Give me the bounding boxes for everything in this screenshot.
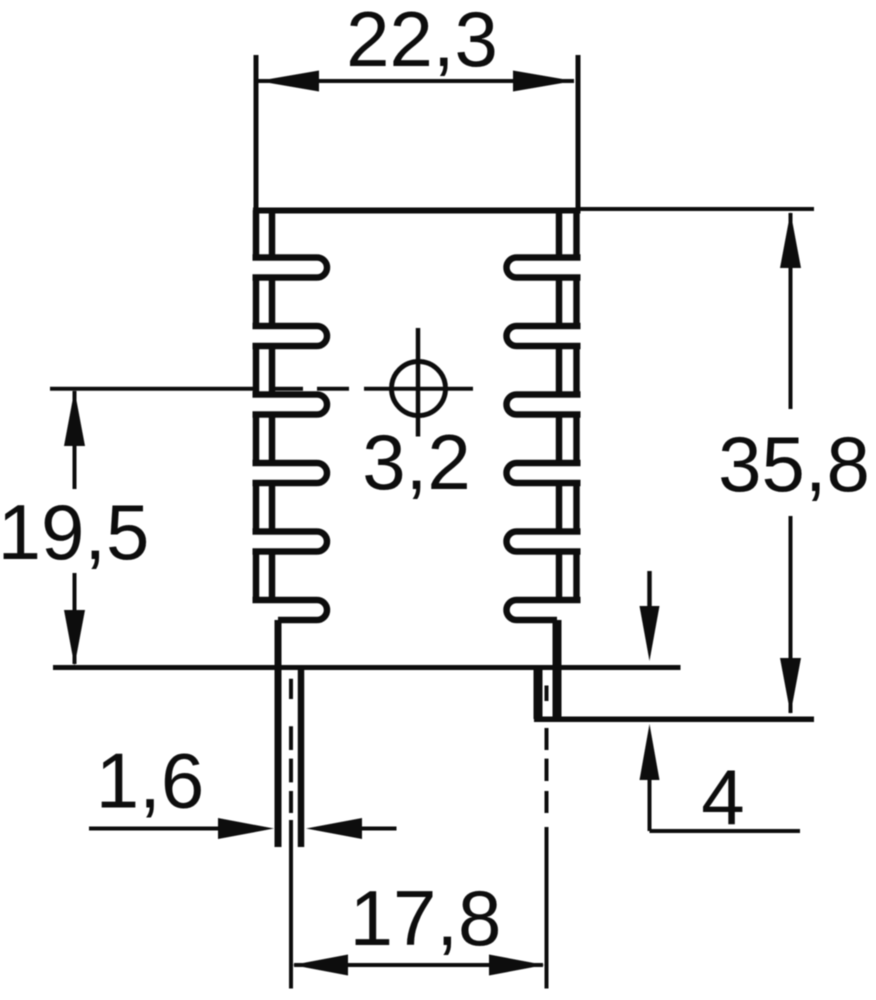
dim 22,3 dimension line (258, 79, 574, 83)
svg-text:17,8: 17,8 (350, 874, 502, 962)
dim 4 down arrowhead (640, 606, 660, 661)
dim 35,8 top extension line (580, 207, 814, 211)
right pin centerline (dash-dot) (545, 686, 549, 989)
right pin left edge (534, 668, 543, 720)
right fin 3 (507, 395, 581, 415)
dim 1,6 right line (362, 827, 397, 831)
dim 35,8 down arrowhead (780, 658, 801, 714)
dim 35,8 up arrowhead (780, 212, 801, 268)
left fin 2 (253, 326, 328, 346)
dim 22,3 right extension line (576, 55, 581, 208)
dim 17,8 right arrowhead (489, 955, 545, 976)
dim 19,5 up arrowhead (64, 390, 85, 446)
bottom base line (19,5 lower extension) (53, 665, 681, 670)
right step wall / right pin right edge (553, 620, 562, 719)
mounting hole circle 3,2 (392, 362, 446, 416)
left outer wall (253, 210, 260, 603)
right fin 4 (507, 463, 581, 483)
left fin 5 (253, 532, 328, 552)
right inner wall (556, 212, 563, 600)
hole horizontal centerline / 19,5 upper extension (50, 387, 473, 391)
svg-text:35,8: 35,8 (718, 420, 870, 508)
left fin 4 (253, 463, 328, 483)
dim 19,5 down arrowhead (64, 610, 85, 666)
dim 35,8 dimension line (789, 213, 793, 713)
svg-text:22,3: 22,3 (346, 0, 498, 83)
dim 22,3 left extension line (254, 55, 259, 208)
dim 4 lower arrow shaft and leader (650, 779, 801, 831)
right fin 1 (507, 258, 581, 278)
svg-text:4: 4 (701, 753, 744, 841)
dim 1,6 left line (89, 827, 218, 831)
left step wall / left pin left edge (275, 620, 282, 847)
svg-text:1,6: 1,6 (96, 737, 204, 825)
right fin 5 (507, 532, 581, 552)
dim 22,3 right arrowhead (513, 71, 574, 92)
svg-text:3,2: 3,2 (362, 418, 470, 506)
svg-text:19,5: 19,5 (0, 488, 149, 576)
left fin 6 (bottom) (253, 600, 328, 620)
dim 4 up arrowhead (640, 724, 660, 780)
right fin 6 (bottom) (507, 600, 581, 620)
left pin right edge (298, 668, 305, 848)
right fin 2 (507, 326, 581, 346)
left inner wall (269, 212, 276, 600)
right outer wall (573, 210, 580, 603)
left pin centerline (dash-dot) (289, 679, 293, 989)
left fin 1 (253, 258, 328, 278)
dim 1,6 right-pointing arrowhead (218, 818, 274, 839)
dim 19,5 dimension line (73, 391, 77, 664)
dim 4 upper arrow shaft (647, 571, 652, 607)
dim 17,8 left arrowhead (293, 955, 349, 976)
left fin 3 (253, 395, 328, 415)
heatsink body top edge (253, 208, 581, 214)
hole vertical centerline (416, 328, 421, 437)
dim 1,6 left-pointing arrowhead (306, 818, 362, 839)
dim 17,8 dimension line (294, 963, 543, 967)
dim 22,3 left arrowhead (258, 71, 319, 92)
pin shoulder / tab line (35,8 + 4 extension) (534, 717, 814, 723)
